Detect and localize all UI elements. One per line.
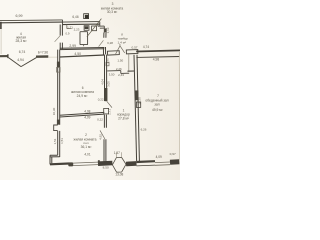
left wall bottom jog vertical xyxy=(50,155,52,164)
svg-text:4,94: 4,94 xyxy=(17,58,24,62)
kitchen top wall line xyxy=(60,55,105,57)
door swing room4 xyxy=(55,36,60,42)
room2 left wall line xyxy=(137,55,139,161)
svg-text:1,4 м²: 1,4 м² xyxy=(118,40,126,44)
vent box above wall (filled) xyxy=(84,14,89,19)
svg-text:8,50: 8,50 xyxy=(103,166,109,170)
svg-text:3,28: 3,28 xyxy=(107,41,113,45)
svg-text:3: 3 xyxy=(112,2,114,6)
corridor wall vent box small xyxy=(106,62,109,66)
door swing middle room east xyxy=(99,40,104,46)
entrance door apex tick xyxy=(119,44,121,46)
middle room top wall inner xyxy=(62,23,100,26)
step box at middle room NE corner xyxy=(98,22,104,28)
wall between room4 and middle room outer xyxy=(59,25,61,51)
svg-text:3,05: 3,05 xyxy=(106,81,110,87)
svg-text:27,8 м²: 27,8 м² xyxy=(118,117,130,121)
svg-text:Б=7,96: Б=7,96 xyxy=(38,50,48,54)
bottom wall segment SW thick xyxy=(50,162,69,165)
corridor right wall outer (double) xyxy=(134,55,137,161)
svg-text:10,30: 10,30 xyxy=(138,97,142,105)
porch extension line left xyxy=(115,153,117,158)
corridor left wall mid (double) xyxy=(104,115,106,128)
room2 wall vent box xyxy=(136,102,140,107)
bottom wall segment right of porch xyxy=(126,161,137,166)
corridor divider step vertical xyxy=(120,71,122,74)
entrance double door swing right xyxy=(120,46,125,53)
room 4 left wall stub xyxy=(0,22,2,29)
vent box below wall (open) xyxy=(84,26,89,31)
wall between room4 and middle room inner xyxy=(61,25,63,50)
left wall notch xyxy=(54,125,58,131)
corridor left wall lower (double) xyxy=(104,139,106,162)
bottom window 2 lower line xyxy=(155,164,170,167)
bottom window 1 lower line xyxy=(73,165,98,166)
porch hexagon xyxy=(112,157,126,172)
mid wall upper line over kitchen (double) xyxy=(60,47,105,50)
left long wall inner line xyxy=(59,50,61,157)
svg-text:4,04: 4,04 xyxy=(100,79,104,85)
middle room top wall outer xyxy=(62,21,100,24)
left wall vent box xyxy=(57,68,61,73)
room 4 left wall faint xyxy=(0,29,2,54)
svg-text:1,51: 1,51 xyxy=(53,138,57,144)
room 4 top wall inner line xyxy=(0,21,63,24)
entrance right wall bar xyxy=(126,50,138,54)
svg-text:2,43: 2,43 xyxy=(118,73,124,77)
closet right of corridor faint wall xyxy=(128,54,130,71)
step pier xyxy=(104,26,106,32)
vent box dark fill xyxy=(85,26,89,29)
svg-text:4,98: 4,98 xyxy=(153,57,160,61)
svg-text:4,74: 4,74 xyxy=(143,45,149,49)
svg-text:6,26: 6,26 xyxy=(141,128,147,132)
bay window right bar xyxy=(36,55,48,58)
bottom wall mid cap xyxy=(98,160,100,163)
svg-text:4,50: 4,50 xyxy=(74,52,81,56)
vent box 2 below wall xyxy=(92,26,97,31)
svg-text:1,51: 1,51 xyxy=(60,138,64,144)
svg-text:0,97: 0,97 xyxy=(170,152,176,156)
svg-text:1,71: 1,71 xyxy=(106,58,110,64)
svg-text:2,26: 2,26 xyxy=(116,67,122,71)
closet box bottom tick xyxy=(83,45,85,47)
bottom wall segment window2 left thick top xyxy=(137,160,156,163)
svg-text:28,3 м²: 28,3 м² xyxy=(15,39,27,43)
svg-text:6,74: 6,74 xyxy=(19,50,26,54)
svg-text:10,30: 10,30 xyxy=(52,107,56,115)
bottom wall pier xyxy=(68,162,73,166)
mid wall right section lower thin line xyxy=(136,56,180,59)
porch extension line right xyxy=(121,152,123,157)
svg-text:24,9 м²: 24,9 м² xyxy=(77,94,89,98)
svg-text:4,09: 4,09 xyxy=(84,116,90,120)
svg-text:3,50: 3,50 xyxy=(109,73,115,77)
svg-text:1,50: 1,50 xyxy=(117,58,123,62)
corridor divider wall left part xyxy=(107,70,121,72)
svg-text:0,9: 0,9 xyxy=(66,31,70,35)
left long wall outer line xyxy=(57,50,59,156)
svg-text:36,1 м²: 36,1 м² xyxy=(81,145,93,149)
svg-text:1,57: 1,57 xyxy=(114,151,120,155)
bay window left bar xyxy=(0,55,8,57)
bay sill faint line xyxy=(48,56,57,58)
bay window left endcap xyxy=(7,54,9,58)
svg-text:13,08: 13,08 xyxy=(115,172,123,176)
svg-text:0,22: 0,22 xyxy=(98,98,104,102)
bottom wall SE thick xyxy=(170,159,179,165)
svg-text:6,46: 6,46 xyxy=(72,15,78,19)
corridor vent box xyxy=(104,108,109,114)
room 4 top wall outer line xyxy=(0,19,63,22)
middle room inner ledge line xyxy=(67,25,72,29)
kitchen / room1 dividing wall (double) xyxy=(60,114,105,117)
svg-text:4,08: 4,08 xyxy=(84,109,90,113)
entrance left wall bar xyxy=(108,51,120,55)
corridor divider wall right part xyxy=(121,72,129,74)
svg-text:2,99: 2,99 xyxy=(69,44,76,48)
corridor left wall upper (double) xyxy=(105,55,107,101)
svg-text:1,71: 1,71 xyxy=(107,109,111,115)
svg-text:2,23: 2,23 xyxy=(74,28,80,32)
left wall pier blob 2 xyxy=(57,120,60,125)
svg-text:4,92: 4,92 xyxy=(99,134,103,140)
bay window diagonal left xyxy=(9,58,22,67)
corridor door swing upper xyxy=(107,101,112,107)
corridor right wall pier xyxy=(135,90,139,100)
corridor upper left wall inner xyxy=(105,33,108,55)
scan paper background xyxy=(0,0,180,180)
mid wall right section top thick line xyxy=(136,50,180,51)
building right wall faint xyxy=(178,52,180,160)
entrance double door swing left xyxy=(116,46,120,54)
leader line to room 3 label xyxy=(87,19,102,37)
left wall pier blob 1 xyxy=(57,62,60,68)
svg-text:30,3 м²: 30,3 м² xyxy=(107,10,117,14)
svg-text:0,57: 0,57 xyxy=(131,46,137,50)
svg-text:4,09: 4,09 xyxy=(156,155,162,159)
corridor left wall pier xyxy=(105,88,108,101)
bay window diagonal right xyxy=(21,58,36,67)
svg-text:49,9 м²: 49,9 м² xyxy=(152,108,164,112)
svg-text:4,01: 4,01 xyxy=(84,153,90,157)
corridor door swing lower xyxy=(100,130,105,139)
closet bottom stub xyxy=(128,70,135,72)
corridor upper left wall (below step) outer xyxy=(102,33,105,55)
bottom wall segment mid thick xyxy=(98,161,112,166)
left wall bottom jog horizontal xyxy=(50,155,60,157)
svg-text:зал: зал xyxy=(154,103,159,107)
bottom wall segment window2 left thin bottom xyxy=(137,164,156,167)
svg-text:1,13: 1,13 xyxy=(106,27,110,33)
bottom window 2 upper line xyxy=(155,161,170,164)
bottom window 1 upper line xyxy=(73,162,98,163)
svg-text:7: 7 xyxy=(157,94,159,98)
svg-text:6,99: 6,99 xyxy=(16,14,23,18)
room4 top wall step xyxy=(62,20,64,25)
svg-text:1,71: 1,71 xyxy=(67,25,73,29)
svg-text:0,22: 0,22 xyxy=(97,118,103,122)
closet box in middle room xyxy=(80,32,88,45)
